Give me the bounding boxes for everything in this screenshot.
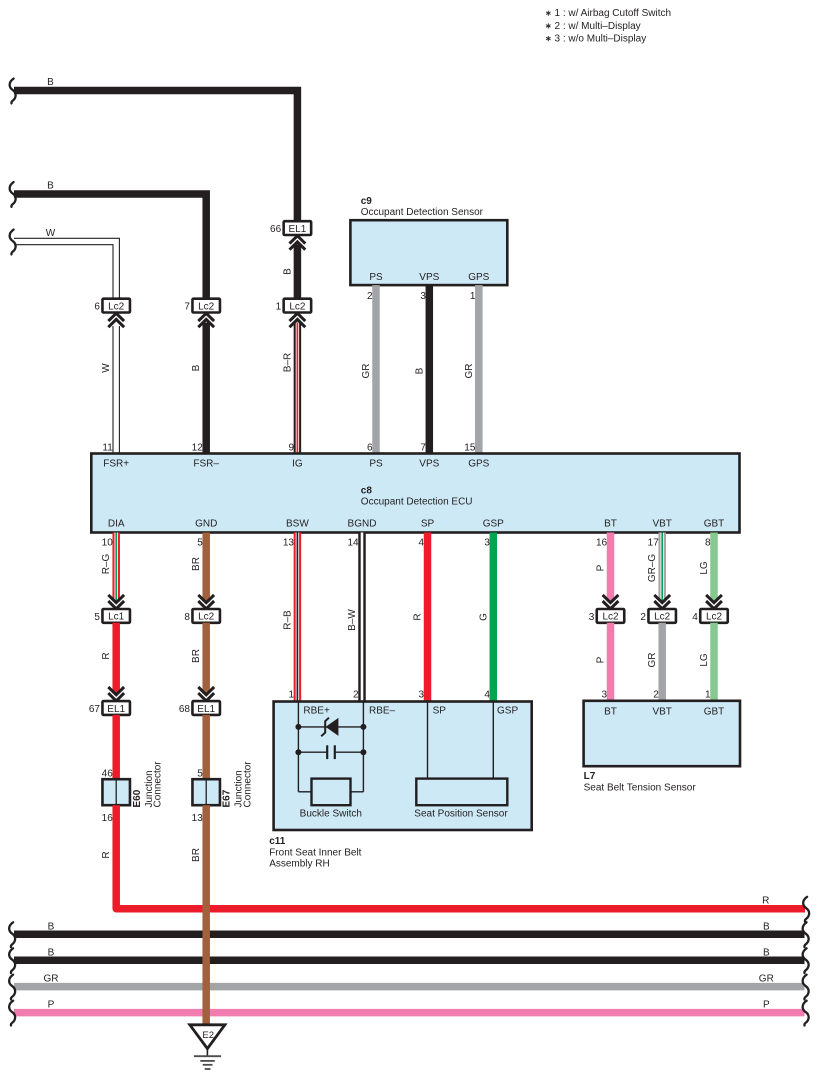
svg-text:Connector: Connector [153,761,164,808]
svg-text:c11: c11 [269,836,286,847]
diode branch wire [298,726,363,728]
svg-text:SP: SP [421,518,435,529]
svg-text:Occupant Detection Sensor: Occupant Detection Sensor [361,207,484,218]
node RBE+ capacitor [295,749,301,755]
svg-text:2: 2 [353,689,359,700]
svg-text:13: 13 [192,813,204,824]
svg-text:G: G [478,613,489,621]
zener diode D1 [321,718,338,737]
svg-text:FSR–: FSR– [193,458,219,469]
svg-text:B: B [414,367,425,374]
svg-text:6: 6 [367,442,373,453]
wire R-B from ECU BSW to c11 RBE+ [294,533,302,703]
seat position sensor GSP lead [492,702,494,779]
svg-text:BR: BR [191,848,202,862]
wire R from Lc1 to EL1 67 [112,623,120,694]
svg-text:12: 12 [192,442,204,453]
svg-text:GPS: GPS [468,458,489,469]
svg-text:68: 68 [179,704,191,715]
svg-text:17: 17 [648,537,660,548]
connector Lc2 pin 3 [589,609,625,623]
svg-text:GSP: GSP [483,518,504,529]
rail wire B at y 934.2 [14,930,805,938]
svg-text:c8: c8 [361,485,373,496]
break symbol right [803,948,809,973]
rail wire P at y 1012.6 [14,1009,805,1017]
shield chevron below Lc2 6 [108,313,124,327]
svg-text:3: 3 [484,537,490,548]
svg-text:66: 66 [270,224,282,235]
svg-text:7: 7 [420,442,426,453]
break symbol right [803,1001,809,1026]
svg-text:16: 16 [596,537,608,548]
c11 designator label [269,836,361,870]
chevron above Lc2 2 [654,595,670,609]
svg-text:10: 10 [102,537,114,548]
connector Lc2 pin 1 [276,299,312,313]
svg-text:4: 4 [484,689,490,700]
wire W feed to Lc2 6 [14,242,116,300]
svg-text:GR: GR [759,974,774,985]
svg-text:L7: L7 [584,771,596,782]
wire BR from EL1 68 to junction E67 [202,715,210,779]
svg-text:Front Seat Inner Belt: Front Seat Inner Belt [269,847,361,858]
svg-text:B: B [48,921,55,932]
connector Lc2 pin 2 [640,609,676,623]
c11 internal right rail from RBE- [362,702,364,792]
svg-text:DIA: DIA [108,518,125,529]
svg-text:VBT: VBT [652,518,671,529]
svg-text:3: 3 [589,612,595,623]
svg-text:BSW: BSW [286,518,309,529]
wire B between EL1 66 and Lc2 1 [294,245,302,300]
svg-text:2 : w/ Multi–Display: 2 : w/ Multi–Display [555,21,641,32]
svg-text:5: 5 [197,537,203,548]
svg-text:EL1: EL1 [107,704,125,715]
wire LG from ECU to Lc2 4 [710,533,718,602]
wire B from c9 VPS to ECU VPS [426,285,434,453]
c8 designator label [361,485,473,507]
svg-text:LG: LG [699,561,710,575]
svg-text:B: B [282,268,293,275]
chevron above Lc2 4 [706,595,722,609]
svg-text:2: 2 [640,612,646,623]
wire B top feed to EL1 66 [14,91,297,223]
svg-text:BR: BR [191,557,202,571]
wire LG from Lc2 to L7 [710,623,718,701]
svg-text:VPS: VPS [419,458,439,469]
wire G from ECU GSP to c11 GSP [490,533,498,703]
svg-text:FSR+: FSR+ [103,458,129,469]
shield chevron below EL1 66 [290,236,306,250]
occupant detection ECU c8 box [91,454,739,533]
svg-text:3: 3 [420,291,426,302]
svg-text:1: 1 [470,291,476,302]
occupant detection sensor c9 box [350,220,507,285]
wire B-R from Lc2 1 to ECU IG [294,323,302,454]
rail wire B at y 960.2 [14,956,805,964]
svg-text:GR: GR [361,364,372,379]
wire BR from Lc2 8 to EL1 68 [202,623,210,694]
svg-text:E2: E2 [202,1030,214,1041]
node RBE- diode [360,724,366,730]
wire GR from Lc2 to L7 [658,623,666,701]
note marker 1 [546,11,551,16]
svg-text:Connector: Connector [242,761,253,808]
c8 top terminals [103,458,489,469]
svg-text:P: P [48,1000,55,1011]
seat belt tension sensor L7 box [584,701,740,766]
svg-text:3: 3 [602,689,608,700]
svg-text:R–B: R–B [282,610,293,630]
svg-text:PS: PS [369,458,383,469]
chevron above EL1 68 [198,687,214,701]
svg-text:15: 15 [464,442,476,453]
connector EL1 pin 67 [89,701,130,715]
c9 designator label [361,196,484,218]
wire GR–G from ECU to Lc2 2 [658,533,666,602]
svg-text:B: B [191,364,202,371]
svg-text:1: 1 [288,689,294,700]
wire B from Lc2 7 to ECU FSR- [202,323,210,454]
svg-text:GSP: GSP [497,705,518,716]
wire R from E60 to rail [116,805,805,909]
chevron above Lc2 3 [603,595,619,609]
svg-text:Lc2: Lc2 [198,612,215,623]
c11 internal left rail from RBE+ [297,702,299,792]
svg-text:GPS: GPS [468,272,489,283]
svg-text:BR: BR [191,649,202,663]
svg-text:GR–G: GR–G [647,554,658,583]
note marker 3 [546,36,551,41]
svg-text:Buckle Switch: Buckle Switch [300,808,362,819]
svg-text:GR: GR [464,364,475,379]
svg-text:GBT: GBT [704,706,725,717]
svg-text:Lc2: Lc2 [108,301,125,312]
wire BR from E67 to ground E2 [202,805,210,1026]
svg-text:P: P [596,564,607,571]
break symbol wire B top [10,79,16,104]
svg-text:SP: SP [433,705,447,716]
chevron above Lc1 5 [108,595,124,609]
connector EL1 pin 66 [270,221,311,235]
svg-text:14: 14 [347,537,359,548]
break symbol left [9,922,15,947]
svg-text:BGND: BGND [348,518,377,529]
wire R from EL1 67 to junction E60 [112,715,120,779]
svg-text:13: 13 [283,537,295,548]
svg-text:B–R: B–R [282,353,293,372]
E67 label [222,761,254,808]
junction connector E60 [102,779,130,805]
svg-text:9: 9 [288,442,294,453]
break symbol wire B second [10,182,16,207]
break symbol wire W [10,230,16,255]
svg-text:GBT: GBT [704,518,725,529]
svg-text:W: W [46,228,56,239]
svg-text:3: 3 [419,689,425,700]
chevron above EL1 67 [108,687,124,701]
wire B second feed to Lc2 7 [14,194,206,300]
seat position sensor SP lead [427,702,429,779]
shield chevron below Lc2 7 [198,313,214,327]
svg-text:RBE+: RBE+ [303,705,330,716]
rail wire GR at y 986.6 [14,983,805,991]
c8 bottom terminals [108,518,724,529]
wire R from ECU SP to c11 SP [424,533,432,703]
wire GR from c9 PS to ECU PS [372,285,380,453]
svg-text:2: 2 [367,291,373,302]
svg-text:B: B [763,921,770,932]
svg-text:GR: GR [44,974,59,985]
node RBE- capacitor [360,749,366,755]
svg-text:1: 1 [705,689,711,700]
svg-text:Occupant Detection ECU: Occupant Detection ECU [361,497,473,508]
connector Lc1 pin 5 [94,609,130,623]
svg-text:6: 6 [94,302,100,313]
svg-text:7: 7 [184,302,190,313]
svg-text:Lc2: Lc2 [654,612,671,623]
svg-text:RBE–: RBE– [369,705,396,716]
svg-text:c9: c9 [361,196,373,207]
svg-text:8: 8 [705,537,711,548]
svg-text:VPS: VPS [419,272,439,283]
svg-text:GR: GR [647,653,658,668]
svg-text:P: P [596,656,607,663]
connector Lc2 pin 7 [184,299,220,313]
capacitor branch wire [298,751,363,753]
break symbol left [9,948,15,973]
svg-text:67: 67 [89,704,101,715]
svg-text:4: 4 [692,612,698,623]
break symbol R rail right [803,897,809,922]
wire BR from ECU GND [202,533,210,602]
svg-text:1: 1 [276,302,282,313]
break symbol left [9,1001,15,1026]
capacitor C1 [327,745,335,759]
L7 designator label [584,771,697,793]
svg-text:BT: BT [604,518,617,529]
note marker 2 [546,23,551,28]
wire GR from c9 GPS to ECU GPS [475,285,483,453]
svg-text:E67: E67 [222,789,233,807]
svg-text:Lc2: Lc2 [706,612,723,623]
wire B-W from ECU BGND to c11 RBE- [358,533,366,703]
svg-text:R: R [413,613,424,620]
svg-text:P: P [763,1000,770,1011]
svg-text:EL1: EL1 [289,224,307,235]
connector Lc2 pin 6 [94,299,130,313]
svg-text:5: 5 [197,769,203,780]
chevron above Lc2 8 [198,595,214,609]
buckle switch box [312,779,351,806]
svg-text:2: 2 [653,689,659,700]
svg-text:Lc2: Lc2 [198,301,215,312]
svg-text:B: B [47,77,54,88]
svg-text:R–G: R–G [101,553,112,574]
svg-text:5: 5 [94,612,100,623]
wire W from Lc2 6 to ECU FSR+ [112,326,120,454]
svg-text:R: R [101,652,112,659]
svg-text:4: 4 [419,537,425,548]
wire R-G from ECU DIA [112,533,120,602]
svg-text:Seat Position Sensor: Seat Position Sensor [414,808,508,819]
svg-text:E60: E60 [132,789,143,807]
svg-text:Lc1: Lc1 [108,612,125,623]
buckle switch connecting wires [298,791,363,793]
svg-text:11: 11 [102,442,113,453]
connector EL1 pin 68 [179,701,220,715]
break symbol right [803,922,809,947]
svg-text:B: B [763,947,770,958]
seat position sensor box [416,779,507,806]
svg-text:3 : w/o Multi–Display: 3 : w/o Multi–Display [555,34,647,45]
svg-text:R: R [101,851,112,858]
svg-text:1 : w/ Airbag Cutoff Switch: 1 : w/ Airbag Cutoff Switch [555,8,672,19]
junction connector E67 [192,779,220,805]
connector Lc2 pin 4 [692,609,728,623]
svg-text:IG: IG [292,458,303,469]
svg-text:Lc2: Lc2 [289,301,306,312]
break symbol right [803,975,809,1000]
svg-text:BT: BT [604,706,617,717]
svg-text:EL1: EL1 [197,704,215,715]
svg-text:B: B [48,947,55,958]
svg-text:Seat Belt Tension Sensor: Seat Belt Tension Sensor [584,783,697,794]
svg-text:Lc2: Lc2 [602,612,619,623]
svg-text:W: W [101,363,112,373]
svg-text:B–W: B–W [347,609,358,631]
connector Lc2 pin 8 [184,609,220,623]
break symbol left [9,975,15,1000]
front seat inner belt assembly c11 box [274,702,532,831]
svg-text:VBT: VBT [652,706,671,717]
wire P from ECU to Lc2 3 [607,533,615,602]
ground E2 symbol [190,1025,225,1069]
svg-text:LG: LG [699,653,710,667]
svg-text:PS: PS [369,272,383,283]
svg-text:8: 8 [184,612,190,623]
svg-text:46: 46 [102,769,114,780]
svg-text:16: 16 [102,813,114,824]
shield chevron below Lc2 1 [290,313,306,327]
svg-text:GND: GND [195,518,217,529]
svg-text:R: R [762,896,769,907]
svg-text:B: B [47,181,54,192]
E60 label [132,761,164,808]
svg-text:Assembly RH: Assembly RH [269,859,330,870]
node RBE+ diode [295,724,301,730]
wire P from Lc2 to L7 [607,623,615,701]
